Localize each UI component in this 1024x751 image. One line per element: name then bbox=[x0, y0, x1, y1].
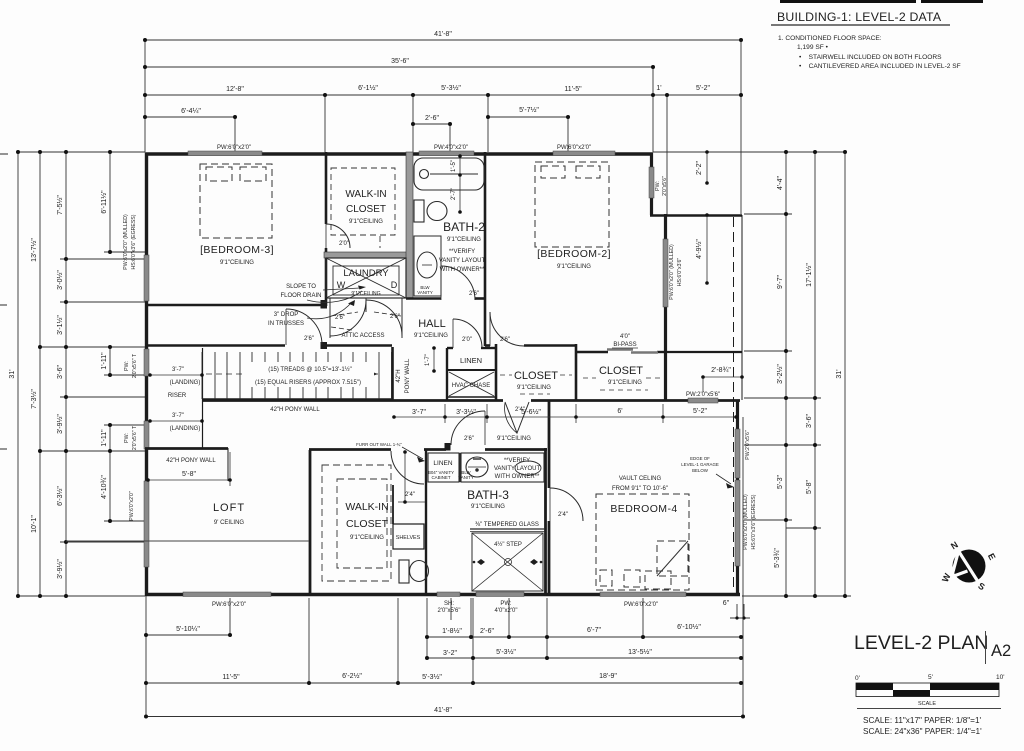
svg-text:WALK-IN: WALK-IN bbox=[345, 189, 386, 200]
svg-text:2'-2": 2'-2" bbox=[696, 161, 703, 175]
landing divider bbox=[202, 348, 204, 448]
linen 1'-7" dim bbox=[433, 348, 435, 371]
svg-text:• CANTILEVERED AREA INCLU: • CANTILEVERED AREA INCLUDED IN LEVEL-2 … bbox=[799, 63, 961, 70]
svg-text:5'-3": 5'-3" bbox=[777, 475, 784, 489]
svg-text:PW:6'0"x2'0": PW:6'0"x2'0" bbox=[557, 145, 591, 151]
svg-text:5'-2": 5'-2" bbox=[693, 408, 707, 415]
bath-3 vanity counter bbox=[461, 453, 544, 482]
svg-text:2'4": 2'4" bbox=[515, 407, 525, 413]
svg-text:BELOW: BELOW bbox=[692, 468, 709, 473]
svg-text:A2: A2 bbox=[991, 642, 1011, 660]
svg-text:PW:6'0"x2'0": PW:6'0"x2'0" bbox=[217, 145, 251, 151]
window left wall loft bbox=[144, 481, 149, 567]
bath-3 door to bedroom-4 bbox=[550, 488, 583, 521]
svg-text:3'-6": 3'-6" bbox=[806, 414, 813, 428]
svg-text:3'-0½": 3'-0½" bbox=[56, 270, 64, 290]
window bath-2 top bbox=[419, 151, 474, 156]
wic dashed inner bbox=[337, 479, 387, 568]
svg-text:PW:6'0"x2'0": PW:6'0"x2'0" bbox=[212, 602, 246, 608]
bedroom-3 label bbox=[200, 244, 274, 266]
svg-text:1. CONDITIONED FLOOR SPACE:: 1. CONDITIONED FLOOR SPACE: bbox=[778, 35, 882, 42]
svg-text:LAUNDRY: LAUNDRY bbox=[343, 268, 389, 279]
compass circle bbox=[953, 550, 986, 583]
bottom row D line 41'-8" bbox=[146, 716, 743, 718]
right dimension labels (rotated) bbox=[774, 176, 843, 568]
left edge stub C bbox=[0, 448, 7, 450]
window bedroom-2 top bbox=[553, 151, 615, 156]
shower X bbox=[472, 533, 543, 591]
svg-text:5'-10¼": 5'-10¼" bbox=[176, 626, 200, 633]
closet west wall bbox=[495, 344, 498, 401]
svg-text:6': 6' bbox=[617, 408, 622, 415]
WIC top wall bbox=[309, 448, 391, 451]
svg-text:SCALE: 24"x36" PAPER: 1/4"=: SCALE: 24"x36" PAPER: 1/4"=1' bbox=[863, 727, 982, 736]
svg-text:2'0"x5'6": 2'0"x5'6" bbox=[438, 608, 461, 614]
bath-2 bottom wall segments bbox=[406, 297, 441, 300]
svg-text:BI-PASS: BI-PASS bbox=[613, 342, 636, 348]
bottom 6" dim bbox=[730, 617, 750, 619]
bed4 pillow 3 bbox=[645, 571, 671, 589]
svg-text:CLOSET: CLOSET bbox=[514, 370, 558, 382]
svg-text:3'-1½": 3'-1½" bbox=[56, 315, 64, 335]
bedroom-2 door bbox=[490, 312, 524, 346]
closet divider wall bbox=[575, 344, 578, 401]
svg-text:2'6": 2'6" bbox=[335, 315, 345, 321]
wic-top labels bbox=[345, 189, 386, 225]
svg-text:(LANDING): (LANDING) bbox=[170, 426, 201, 432]
bath-2 labels bbox=[439, 220, 486, 273]
exterior wall bottom bbox=[145, 593, 740, 596]
bottom row C line bbox=[146, 682, 741, 684]
svg-text:⅜" TEMPERED GLASS: ⅜" TEMPERED GLASS bbox=[475, 522, 539, 528]
window bedroom-4 east lower bbox=[735, 480, 740, 566]
sheet edge bar 2 bbox=[921, 0, 983, 3]
bath-2 vanity bbox=[414, 236, 441, 296]
dim 5'-7 1/2 line bbox=[488, 116, 568, 118]
svg-text:10'-1": 10'-1" bbox=[31, 515, 38, 533]
loft section line bbox=[66, 540, 309, 542]
right ext stubs bbox=[744, 213, 792, 215]
bath-2 toilet bbox=[414, 200, 447, 222]
stair center dashed line bbox=[206, 373, 378, 375]
svg-text:6'-11½": 6'-11½" bbox=[100, 190, 108, 214]
stair note texts bbox=[255, 366, 361, 386]
hall south wall stubs at bedroom-2 door bbox=[485, 344, 490, 347]
svg-text:3'-2": 3'-2" bbox=[443, 650, 457, 657]
left dim col 31' bbox=[17, 152, 19, 596]
svg-text:6": 6" bbox=[723, 600, 730, 607]
svg-text:7'-3½": 7'-3½" bbox=[30, 389, 38, 409]
svg-text:**VERIFY: **VERIFY bbox=[449, 249, 475, 255]
leader arrowheads bbox=[348, 286, 366, 307]
svg-text:9'-7": 9'-7" bbox=[777, 275, 784, 289]
left dimension labels (rotated) bbox=[9, 190, 108, 579]
laundry west wall bbox=[325, 248, 328, 306]
svg-text:LOFT: LOFT bbox=[213, 502, 245, 514]
loft label bbox=[213, 502, 245, 526]
linen door arc bbox=[453, 319, 482, 348]
svg-text:11'-5": 11'-5" bbox=[222, 674, 240, 681]
svg-text:HS:6'0"x3'6": HS:6'0"x3'6" bbox=[677, 258, 683, 287]
window bedroom-4 east upper bbox=[735, 429, 740, 478]
svg-text:1,199 SF •: 1,199 SF • bbox=[797, 44, 829, 51]
svg-text:SCALE: 11"x17" PAPER: 1/8"=: SCALE: 11"x17" PAPER: 1/8"=1' bbox=[863, 716, 982, 725]
WIC east wall upper bbox=[392, 485, 394, 524]
svg-text:2'0"x5'6": 2'0"x5'6" bbox=[662, 176, 668, 196]
svg-text:2'0": 2'0" bbox=[339, 241, 349, 247]
svg-text:4½" STEP: 4½" STEP bbox=[494, 541, 522, 548]
svg-text:CLOSET: CLOSET bbox=[346, 204, 386, 215]
scale notes bbox=[863, 716, 982, 736]
svg-text:VANITY LAYOUT: VANITY LAYOUT bbox=[494, 466, 541, 472]
window cantilever bottom y=400 bbox=[688, 398, 718, 403]
svg-text:5'-3½": 5'-3½" bbox=[441, 84, 461, 92]
svg-text:PW:2'0"x5'6": PW:2'0"x5'6" bbox=[745, 430, 751, 460]
bed4 pillow 2 bbox=[624, 570, 640, 587]
bath-3 labels bbox=[467, 488, 539, 528]
svg-text:2'6": 2'6" bbox=[464, 436, 474, 442]
svg-text:LEVEL-1 GARAGE: LEVEL-1 GARAGE bbox=[681, 462, 719, 467]
svg-text:7'-5½": 7'-5½" bbox=[56, 195, 64, 215]
exterior wall right jog vertical bbox=[650, 153, 653, 216]
svg-text:PW:6'0"x2'0" (MULLED): PW:6'0"x2'0" (MULLED) bbox=[123, 214, 129, 270]
svg-text:5'-8": 5'-8" bbox=[806, 480, 813, 494]
svg-text:PW:: PW: bbox=[124, 361, 130, 371]
svg-text:5'-3¾": 5'-3¾" bbox=[774, 548, 781, 568]
svg-text:5': 5' bbox=[928, 674, 933, 681]
attic labels bbox=[335, 314, 400, 339]
wic toilet bbox=[399, 560, 429, 583]
shower side diamonds bbox=[473, 559, 543, 565]
garage edge dashed line bbox=[733, 217, 735, 592]
svg-text:1'-7": 1'-7" bbox=[425, 354, 431, 366]
svg-text:BATH-2: BATH-2 bbox=[443, 220, 485, 234]
window bedroom-3 top bbox=[188, 151, 262, 156]
dim row 35'-6" bbox=[145, 66, 653, 68]
svg-text:D: D bbox=[391, 280, 398, 290]
svg-text:LEVEL-2 PLAN: LEVEL-2 PLAN bbox=[854, 632, 988, 654]
verify scribble oval bbox=[515, 461, 541, 475]
sheet edge bar 1 bbox=[780, 0, 916, 3]
hvac bottom bbox=[447, 396, 495, 398]
svg-text:5'-7½": 5'-7½" bbox=[519, 106, 539, 114]
right dim col C bbox=[844, 152, 846, 596]
stair direction arrow bbox=[371, 372, 378, 377]
svg-text:9'1"CEILING: 9'1"CEILING bbox=[447, 237, 481, 243]
svg-text:2'6": 2'6" bbox=[469, 291, 479, 297]
svg-text:3'-7": 3'-7" bbox=[172, 367, 184, 373]
attic side walls bbox=[329, 298, 331, 338]
svg-text:VANITY: VANITY bbox=[458, 475, 474, 480]
svg-text:9'1"CEILING: 9'1"CEILING bbox=[608, 380, 642, 386]
svg-text:HALL: HALL bbox=[418, 318, 446, 330]
loft pony wall bbox=[145, 447, 228, 450]
svg-text:9' CEILING: 9' CEILING bbox=[214, 520, 244, 526]
bedroom-2 east wall bbox=[664, 214, 667, 401]
left dim col 3 bbox=[65, 152, 67, 596]
closet dashed decorations bbox=[500, 375, 660, 394]
svg-text:35'-6": 35'-6" bbox=[391, 58, 409, 65]
exterior wall left bbox=[145, 153, 148, 597]
middle closet V door bbox=[505, 402, 529, 433]
svg-text:6'-7": 6'-7" bbox=[587, 627, 601, 634]
right dim col B bbox=[814, 152, 816, 596]
bed3 pillow 2 bbox=[240, 167, 266, 181]
svg-text:LINEN: LINEN bbox=[460, 356, 482, 365]
scale bar labels bbox=[855, 674, 1004, 682]
svg-text:2'-6": 2'-6" bbox=[480, 628, 494, 635]
svg-text:3'-9½": 3'-9½" bbox=[56, 414, 64, 434]
laundry box bbox=[326, 258, 406, 298]
bottom row A lines bbox=[146, 634, 230, 636]
window bedroom-2 east wall bbox=[663, 239, 668, 307]
attic dashed guides bbox=[331, 312, 358, 316]
bath-3 linen labels bbox=[428, 460, 474, 480]
dim row 41'-8" top bbox=[145, 39, 741, 41]
svg-text:13'-7½": 13'-7½" bbox=[30, 238, 38, 262]
laundry inner box bbox=[333, 266, 399, 295]
bottom dimension labels bbox=[176, 600, 730, 714]
svg-text:BATH-3: BATH-3 bbox=[467, 488, 509, 502]
svg-text:(15) EQUAL RISERS (APPROX 7.51: (15) EQUAL RISERS (APPROX 7.515") bbox=[255, 380, 361, 386]
window loft bottom bbox=[183, 592, 271, 597]
bottom dimension dots bbox=[144, 616, 746, 718]
svg-text:SCALE: SCALE bbox=[918, 701, 936, 707]
window PW4 bottom bbox=[476, 592, 524, 597]
vestibule 2'4" dim bbox=[398, 452, 425, 502]
svg-text:PW:6'0"x2'0" (MULLED): PW:6'0"x2'0" (MULLED) bbox=[743, 494, 749, 550]
bed2 pillow 2 bbox=[576, 166, 600, 178]
wic-top door arc bbox=[326, 224, 350, 248]
cantilever thin east line x=742 bbox=[741, 215, 743, 400]
data block title underline bbox=[771, 24, 950, 26]
shower box bbox=[472, 533, 543, 591]
left wall window labels (rotated) bbox=[123, 214, 138, 521]
svg-text:4'-9½": 4'-9½" bbox=[695, 239, 703, 259]
svg-text:4'-4": 4'-4" bbox=[777, 176, 784, 190]
window left wall stair lower bbox=[144, 421, 149, 449]
svg-text:2'-7": 2'-7" bbox=[451, 188, 457, 200]
bed3 outline dashed bbox=[200, 164, 272, 238]
stair treads bbox=[202, 352, 392, 399]
attic door arcs bbox=[330, 300, 366, 336]
svg-text:EDGE OF: EDGE OF bbox=[690, 456, 710, 461]
bath-3 linen box bbox=[428, 453, 544, 482]
svg-text:FURR OUT WALL 1-¾": FURR OUT WALL 1-¾" bbox=[356, 442, 402, 447]
bi-pass door panels bbox=[607, 350, 658, 353]
svg-text:1'-11": 1'-11" bbox=[101, 429, 108, 447]
svg-text:VAULT CELING: VAULT CELING bbox=[619, 476, 662, 482]
left dim col 4 bbox=[109, 152, 111, 252]
svg-text:3'-7": 3'-7" bbox=[412, 409, 426, 416]
svg-text:5'-2": 5'-2" bbox=[696, 85, 710, 92]
bath-3 verify note bbox=[494, 458, 541, 480]
stair east pony wall bbox=[391, 347, 394, 400]
hall dim labels bbox=[412, 408, 707, 416]
bottom extension verticals bbox=[145, 596, 147, 717]
svg-text:2'0"x5'6" T: 2'0"x5'6" T bbox=[132, 425, 138, 450]
bedroom-4 west wall upper bbox=[548, 401, 551, 488]
svg-text:5'-3½": 5'-3½" bbox=[422, 673, 442, 681]
svg-text:12'-8": 12'-8" bbox=[226, 86, 244, 93]
svg-text:9'1"CEILING: 9'1"CEILING bbox=[497, 436, 531, 442]
bi-pass underline bbox=[612, 347, 638, 349]
top window labels bbox=[217, 145, 591, 151]
svg-text:HS:6'0"x3'6" (EGRESS): HS:6'0"x3'6" (EGRESS) bbox=[131, 214, 137, 269]
svg-text:SH:: SH: bbox=[444, 601, 454, 607]
attic center post bbox=[365, 298, 367, 312]
compass letters bbox=[940, 539, 998, 592]
window SH bottom bbox=[437, 592, 460, 597]
cantilever wall y=352 bbox=[664, 351, 742, 353]
loft pony wall end tick bbox=[227, 448, 229, 481]
svg-text:0': 0' bbox=[855, 675, 860, 682]
svg-text:1'-5": 1'-5" bbox=[451, 160, 457, 172]
svg-text:WALK-IN: WALK-IN bbox=[345, 501, 388, 513]
shower drain bbox=[505, 559, 512, 566]
top dimension labels bbox=[181, 31, 710, 122]
svg-text:13'-5½": 13'-5½" bbox=[628, 648, 652, 656]
dim 4'-9 1/2" right of bedroom-2 bbox=[706, 215, 708, 283]
svg-text:4'0"x2'0": 4'0"x2'0" bbox=[495, 608, 518, 614]
svg-text:VANITY: VANITY bbox=[417, 290, 433, 295]
wic door arc bbox=[391, 451, 424, 484]
svg-text:PW:: PW: bbox=[500, 601, 512, 607]
svg-text:2'0"x5'6" T: 2'0"x5'6" T bbox=[132, 353, 138, 378]
svg-text:1'-8½": 1'-8½" bbox=[442, 627, 462, 635]
title underline bbox=[857, 708, 1001, 710]
svg-text:2'6": 2'6" bbox=[500, 337, 510, 343]
WIC-bottom west wall bbox=[309, 450, 312, 593]
stair text background bbox=[246, 362, 374, 387]
svg-text:6'-1½": 6'-1½" bbox=[358, 84, 378, 92]
laundry X bbox=[326, 258, 406, 298]
bottom window labels bbox=[212, 601, 658, 614]
laundry labels bbox=[337, 268, 398, 297]
svg-text:9'1"CEILING: 9'1"CEILING bbox=[517, 385, 551, 391]
svg-text:LINEN: LINEN bbox=[433, 460, 452, 467]
left edge stub B bbox=[0, 304, 7, 306]
svg-text:6'-4¼": 6'-4¼" bbox=[181, 108, 201, 115]
svg-text:10': 10' bbox=[996, 674, 1004, 681]
svg-text:CLOSET: CLOSET bbox=[346, 518, 389, 530]
svg-text:VANITY LAYOUT: VANITY LAYOUT bbox=[439, 258, 486, 264]
svg-text:1': 1' bbox=[656, 85, 661, 92]
bath-2/bedroom-2 wall bbox=[484, 152, 487, 346]
stair bottom wall (pony) bbox=[202, 398, 392, 400]
mid wall y=400 (hall/closets bottom, bedroom-4 top) bbox=[202, 399, 503, 402]
data block title BUILDING-1: LEVEL-2 DATA bbox=[777, 10, 942, 24]
svg-text:9'1"CEILING: 9'1"CEILING bbox=[414, 333, 448, 339]
bottom row B line bbox=[427, 657, 741, 659]
svg-text:11'-5": 11'-5" bbox=[564, 86, 582, 93]
svg-text:41'-8": 41'-8" bbox=[434, 31, 452, 38]
svg-text:• STAIRWELL INCLUDED ON: • STAIRWELL INCLUDED ON BOTH FLOORS bbox=[799, 54, 942, 61]
svg-text:PW:4'0"x2'0": PW:4'0"x2'0" bbox=[434, 145, 468, 151]
svg-text:2'6": 2'6" bbox=[390, 314, 400, 320]
bath-2 vanity tiny label bbox=[417, 285, 433, 295]
right closet top wall stubs bbox=[576, 351, 608, 353]
svg-text:31': 31' bbox=[9, 369, 16, 378]
svg-text:42"H PONY WALL: 42"H PONY WALL bbox=[270, 407, 320, 413]
bed4 pillow 1 bbox=[600, 570, 612, 586]
data block notes bbox=[778, 35, 961, 70]
wic-top dashed interior bbox=[331, 168, 395, 248]
svg-text:6'-3½": 6'-3½" bbox=[56, 486, 64, 506]
window left wall stair upper bbox=[144, 349, 149, 376]
svg-text:SLOPE TO: SLOPE TO bbox=[286, 284, 316, 290]
left dim col 2 bbox=[39, 152, 41, 596]
exterior wall upper-right horizontal y=215 bbox=[650, 214, 742, 217]
svg-text:3'-7": 3'-7" bbox=[172, 413, 184, 419]
bed3 pillow 1 bbox=[206, 167, 232, 181]
svg-text:[BEDROOM-2]: [BEDROOM-2] bbox=[537, 248, 611, 260]
bed4 outline dashed bbox=[596, 494, 689, 590]
bed2 outline dashed bbox=[535, 162, 609, 247]
stair top wall east bbox=[321, 344, 392, 347]
laundry top hatched wall bbox=[324, 252, 410, 258]
svg-text:4'-10¾": 4'-10¾" bbox=[101, 475, 108, 499]
svg-text:2'-8¾": 2'-8¾" bbox=[711, 367, 731, 374]
right dimension dots bbox=[784, 150, 847, 598]
right dim col A bbox=[785, 152, 787, 596]
svg-text:PONY WALL: PONY WALL bbox=[405, 358, 411, 393]
bedroom-3 bottom wall bbox=[145, 304, 321, 307]
left extension horizontals bbox=[18, 151, 145, 153]
vestibule jog bbox=[445, 443, 451, 451]
svg-text:17'-1½": 17'-1½" bbox=[805, 263, 813, 287]
bath-2 tub bbox=[414, 158, 484, 190]
svg-text:BEDROOM-4: BEDROOM-4 bbox=[610, 503, 677, 515]
stair top wall west bbox=[145, 344, 285, 347]
leader 3in drop bbox=[307, 302, 352, 319]
right wall window labels (rotated) bbox=[655, 176, 757, 550]
svg-text:42"H: 42"H bbox=[396, 369, 402, 382]
bath-2 interior dim bbox=[459, 156, 461, 212]
svg-text:41'-8": 41'-8" bbox=[434, 707, 452, 714]
svg-text:RISER: RISER bbox=[168, 393, 187, 399]
exterior wall top bbox=[145, 152, 653, 155]
landing 1 labels bbox=[168, 367, 201, 399]
hatched wall bath-2 west bbox=[406, 152, 413, 298]
svg-text:(15) TREADS @ 10.5"=13'-1½": (15) TREADS @ 10.5"=13'-1½" bbox=[268, 366, 352, 373]
bath-3 east wall bbox=[544, 448, 547, 593]
left dimension dots bbox=[16, 150, 112, 598]
svg-text:BUILDING-1: LEVEL-2 DATA: BUILDING-1: LEVEL-2 DATA bbox=[777, 10, 942, 24]
wic labels bbox=[345, 501, 388, 541]
svg-text:9'1"CEILING: 9'1"CEILING bbox=[471, 504, 505, 510]
title separator bbox=[985, 631, 987, 664]
toilet nook wall bbox=[425, 450, 427, 593]
svg-text:PW:6'0"x2'0": PW:6'0"x2'0" bbox=[129, 491, 135, 521]
bed4 throw square bbox=[657, 541, 688, 576]
dim 2'-6 line (bath2 window) bbox=[413, 123, 450, 125]
svg-text:3'-3½": 3'-3½" bbox=[456, 408, 476, 416]
svg-text:2'0": 2'0" bbox=[462, 337, 472, 343]
shower glass line bbox=[470, 528, 545, 530]
bedroom-4 labels bbox=[610, 476, 677, 515]
leader slope-to-drain bbox=[323, 288, 360, 290]
dim 2'-2" top right bbox=[706, 152, 708, 183]
landing 2 labels bbox=[170, 413, 201, 432]
bath-3 top wall bbox=[485, 448, 547, 451]
svg-text:9'1"CEILING: 9'1"CEILING bbox=[350, 535, 384, 541]
svg-text:9'1"CEILING: 9'1"CEILING bbox=[220, 260, 254, 266]
bedroom-4 east wall bbox=[736, 400, 739, 595]
svg-text:SHELVES: SHELVES bbox=[396, 535, 421, 541]
svg-text:(LANDING): (LANDING) bbox=[170, 380, 201, 386]
window bedroom-4 bottom bbox=[600, 592, 686, 597]
